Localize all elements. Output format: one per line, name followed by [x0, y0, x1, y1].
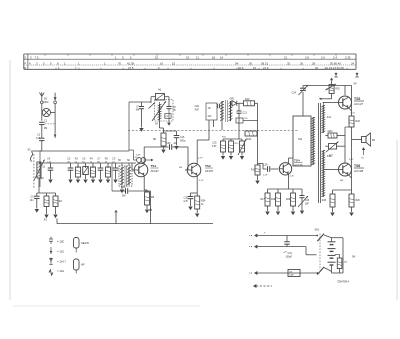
svg-text:TS5: TS5: [354, 97, 360, 101]
svg-text:R25: R25: [336, 89, 341, 91]
svg-text:100µF: 100µF: [286, 257, 293, 259]
svg-text:28: 28: [312, 61, 316, 65]
svg-text:AC127: AC127: [354, 102, 364, 106]
svg-text:14: 14: [220, 55, 224, 59]
svg-text:S13: S13: [327, 117, 332, 119]
svg-text:0,4V: 0,4V: [349, 159, 354, 161]
svg-text:26: 26: [300, 61, 304, 65]
svg-text:C19: C19: [263, 164, 268, 167]
svg-text:AF: AF: [174, 142, 178, 145]
svg-text:31.23.23.26.28: 31.23.23.26.28: [325, 66, 344, 70]
svg-text:50.80.45: 50.80.45: [330, 61, 341, 65]
svg-text:500p: 500p: [180, 140, 186, 143]
svg-text:4,5F: 4,5F: [212, 146, 217, 148]
svg-text:1,2V: 1,2V: [290, 176, 295, 178]
svg-text:R20: R20: [286, 199, 291, 201]
svg-text:2.8: 2.8: [305, 55, 309, 59]
svg-text:24: 24: [351, 61, 355, 65]
svg-text:2.4: 2.4: [333, 55, 337, 59]
svg-text:R28: R28: [322, 200, 327, 202]
svg-text:AC128: AC128: [354, 169, 364, 173]
svg-text:0M: 0M: [340, 180, 343, 182]
svg-text:21.6: 21.6: [263, 66, 269, 70]
svg-text:0,1F: 0,1F: [263, 175, 268, 177]
svg-text:R26: R26: [356, 120, 361, 123]
svg-text:H1: H1: [158, 88, 162, 92]
svg-text:7Z64798.4: 7Z64798.4: [337, 281, 350, 284]
svg-text:HF: HF: [81, 263, 85, 267]
svg-text:50F: 50F: [305, 203, 310, 205]
svg-text:TS2: TS2: [205, 164, 211, 168]
svg-text:12V: 12V: [208, 116, 213, 118]
svg-text:19: 19: [186, 55, 190, 59]
svg-text:R29: R29: [356, 200, 361, 202]
svg-text:18: 18: [212, 55, 216, 59]
svg-text:16: 16: [160, 61, 164, 65]
svg-text:= 114,7: = 114,7: [57, 260, 66, 264]
svg-text:R17: R17: [261, 199, 266, 201]
svg-text:C10: C10: [121, 186, 126, 189]
svg-text:6M: 6M: [136, 110, 139, 112]
svg-text:SE2/N: SE2/N: [81, 241, 89, 245]
svg-text:TR: TR: [208, 108, 211, 110]
svg-text:AF197: AF197: [205, 169, 214, 173]
svg-text:9V: 9V: [352, 255, 356, 259]
svg-text:0M: 0M: [179, 167, 182, 169]
svg-text:C20: C20: [166, 142, 171, 145]
svg-text:26: 26: [315, 66, 319, 70]
svg-text:= 11G: = 11G: [57, 269, 64, 273]
svg-text:TS6: TS6: [354, 164, 360, 168]
svg-text:15: 15: [253, 66, 257, 70]
svg-text:15: 15: [155, 55, 159, 59]
svg-text:C28: C28: [305, 200, 310, 202]
svg-text:AF197: AF197: [151, 169, 160, 173]
svg-text:3,3F: 3,3F: [136, 155, 141, 157]
svg-text:5M: 5M: [122, 195, 125, 198]
svg-text:7B: 7B: [173, 109, 176, 112]
svg-text:21: 21: [284, 55, 288, 59]
svg-text:0,1V: 0,1V: [351, 113, 356, 115]
svg-text:GR2: GR2: [328, 130, 334, 133]
svg-text:C24: C24: [292, 92, 297, 95]
svg-text:4,7F: 4,7F: [183, 200, 188, 203]
svg-text:70: 70: [118, 61, 122, 65]
svg-text:38.31: 38.31: [261, 61, 268, 65]
svg-text:25: 25: [287, 61, 291, 65]
svg-text:C31: C31: [288, 252, 293, 255]
svg-text:SK1: SK1: [315, 228, 320, 232]
svg-text:9V: 9V: [354, 82, 357, 86]
svg-text:R14: R14: [247, 139, 252, 141]
svg-text:S11: S11: [298, 138, 303, 141]
svg-text:11: 11: [196, 55, 199, 59]
svg-text:R16: R16: [251, 170, 256, 172]
svg-text:30: 30: [249, 61, 253, 65]
svg-text:R27: R27: [329, 156, 334, 158]
svg-text:FM: FM: [44, 128, 47, 130]
svg-text:100F: 100F: [289, 275, 295, 277]
svg-text:4,7V: 4,7V: [198, 158, 203, 160]
svg-text:92.6: 92.6: [238, 66, 244, 70]
svg-text:41.38: 41.38: [127, 61, 134, 65]
svg-text:0,7V: 0,7V: [199, 180, 204, 182]
svg-text:R10: R10: [245, 98, 250, 101]
svg-text:2.35: 2.35: [345, 55, 351, 59]
svg-text:C26: C26: [212, 143, 217, 145]
svg-text:C21: C21: [243, 112, 248, 115]
svg-text:= 11S: = 11S: [57, 249, 64, 253]
svg-text:15: 15: [172, 61, 176, 65]
svg-text:R18: R18: [271, 199, 276, 201]
svg-text:TS1: TS1: [151, 164, 157, 168]
svg-text:= 11E: = 11E: [57, 240, 64, 244]
svg-text:2.6: 2.6: [321, 55, 325, 59]
svg-text:GS: GS: [289, 272, 293, 274]
svg-text:34: 34: [235, 61, 239, 65]
svg-text:GR1: GR1: [230, 98, 236, 101]
svg-text:7.5: 7.5: [35, 55, 39, 59]
svg-text:27.5: 27.5: [128, 66, 134, 70]
svg-text:A1F: A1F: [195, 108, 200, 111]
svg-text:601F: 601F: [44, 102, 50, 104]
